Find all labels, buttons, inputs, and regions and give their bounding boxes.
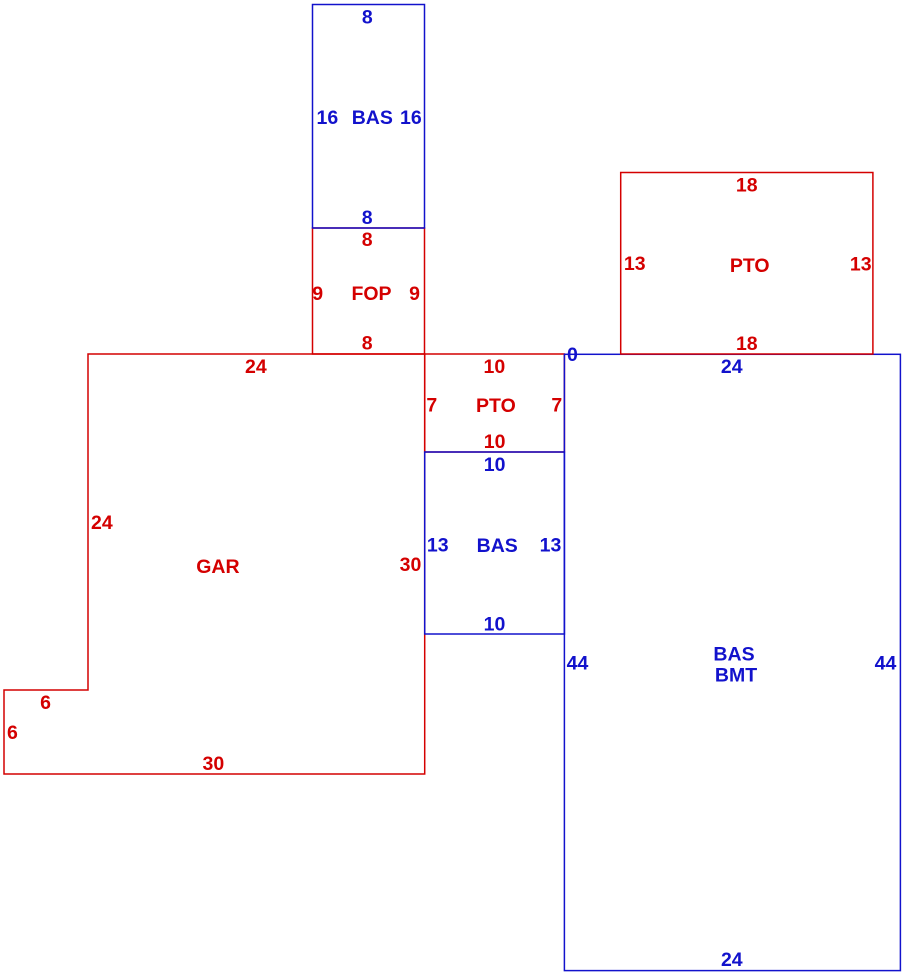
svg-text:13: 13	[540, 534, 562, 556]
svg-text:PTO: PTO	[730, 255, 770, 277]
svg-text:18: 18	[736, 174, 758, 196]
svg-text:24: 24	[721, 949, 743, 971]
area GAR (red polygon)	[4, 354, 425, 774]
svg-text:24: 24	[245, 356, 267, 378]
svg-text:10: 10	[484, 454, 506, 476]
svg-text:0: 0	[567, 344, 578, 366]
svg-text:BAS: BAS	[352, 107, 393, 129]
svg-text:9: 9	[409, 283, 420, 305]
svg-text:7: 7	[426, 394, 437, 416]
area PTO (middle, red outline)	[425, 354, 565, 452]
svg-text:18: 18	[736, 333, 758, 355]
svg-text:13: 13	[624, 253, 646, 275]
svg-text:44: 44	[567, 652, 589, 674]
svg-text:BMT: BMT	[715, 664, 757, 686]
svg-text:30: 30	[203, 753, 225, 775]
svg-text:6: 6	[40, 692, 51, 714]
svg-text:30: 30	[400, 554, 422, 576]
svg-text:16: 16	[317, 107, 339, 129]
area PTO (right, red rectangle drawn last)	[621, 173, 873, 355]
svg-text:44: 44	[875, 653, 897, 675]
svg-text:7: 7	[551, 394, 562, 416]
svg-text:BAS: BAS	[713, 643, 754, 665]
svg-text:BAS: BAS	[477, 535, 518, 557]
area BAS (top, blue rectangle)	[313, 5, 425, 229]
svg-text:GAR: GAR	[196, 556, 239, 578]
svg-text:13: 13	[427, 534, 449, 556]
svg-text:FOP: FOP	[351, 283, 391, 305]
area BAS (middle, blue rectangle)	[425, 452, 565, 634]
area FOP (red rectangle)	[313, 228, 425, 354]
svg-text:10: 10	[484, 431, 506, 453]
svg-text:16: 16	[400, 107, 422, 129]
svg-text:9: 9	[312, 283, 323, 305]
svg-text:10: 10	[484, 613, 506, 635]
svg-text:8: 8	[362, 333, 373, 355]
svg-text:PTO: PTO	[476, 395, 516, 417]
svg-text:13: 13	[850, 254, 872, 276]
svg-text:8: 8	[362, 207, 373, 229]
svg-text:10: 10	[484, 356, 506, 378]
svg-text:8: 8	[362, 229, 373, 251]
svg-text:24: 24	[721, 356, 743, 378]
svg-text:6: 6	[7, 722, 18, 744]
svg-text:8: 8	[362, 6, 373, 28]
area BAS BMT (large blue rectangle)	[564, 354, 900, 970]
svg-text:24: 24	[91, 512, 113, 534]
